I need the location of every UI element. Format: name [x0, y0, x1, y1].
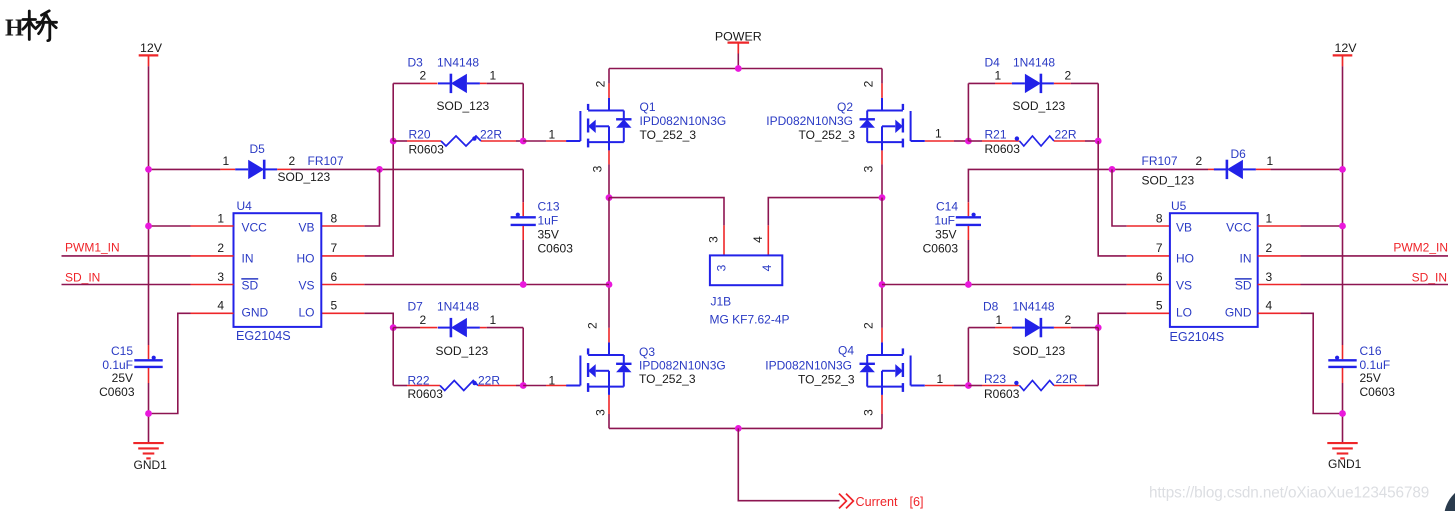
svg-text:12V: 12V [1335, 41, 1358, 55]
wire top rail to Q1 drain [608, 69, 610, 84]
resistor R23 22R [1020, 381, 1055, 391]
wire top rail to Q2 drain [881, 69, 883, 84]
svg-text:22R: 22R [478, 374, 500, 388]
pin 6 of U5 [1127, 284, 1170, 286]
svg-text:25V: 25V [112, 371, 133, 385]
svg-text:FR107: FR107 [1142, 154, 1178, 168]
resistor R20 pin1 dot [472, 136, 476, 140]
svg-text:7: 7 [1156, 241, 1163, 255]
svg-text:2: 2 [1196, 154, 1203, 168]
wire VS rail left [364, 284, 609, 286]
wire C15 to GND junction [148, 383, 150, 443]
svg-text:2: 2 [420, 313, 427, 327]
junction C15/GND1 [145, 410, 152, 417]
svg-text:8: 8 [331, 211, 338, 225]
junction gate-rail-left/D3 riser [390, 138, 397, 145]
pin 2 of U4 [191, 255, 234, 257]
resistor R20 right pin [481, 140, 516, 142]
svg-text:1: 1 [217, 211, 224, 225]
wire C14 to VS rail [967, 240, 969, 285]
diode D4 pin 1 lead [995, 82, 1012, 84]
pin 3 of U4 [191, 284, 234, 286]
wire 12V-right column [1342, 66, 1344, 345]
svg-text:SOD_123: SOD_123 [278, 170, 331, 184]
wire bottom rail [609, 427, 882, 429]
diode D4 1N4148 [1025, 74, 1041, 93]
svg-text:1: 1 [490, 313, 497, 327]
pin 3 of Q1 (source) [608, 150, 610, 164]
svg-text:IN: IN [242, 252, 254, 266]
svg-text:Current: Current [856, 495, 898, 509]
svg-text:1: 1 [549, 127, 556, 141]
resistor R20 22R [441, 136, 481, 146]
svg-text:LO: LO [1176, 306, 1192, 320]
capacitor C13 top pin [522, 202, 524, 216]
ground GND1 left symbol [133, 442, 163, 444]
diode D7 pin 1 lead [480, 327, 487, 329]
junction 12V-left/VB-rail [145, 166, 152, 173]
wire gate rail left stub [393, 140, 407, 142]
svg-text:R21: R21 [985, 127, 1007, 141]
wire C16 to GND junction [1342, 383, 1344, 443]
resistor R21 right pin [1054, 140, 1085, 142]
diode D3 pin 2 lead [420, 82, 437, 84]
pin 5 of U5 [1127, 312, 1170, 314]
svg-text:SD: SD [242, 279, 259, 293]
diode D7 1N4148 [451, 318, 467, 337]
pin 4 of U4 [191, 312, 234, 314]
junction phase-A/VS rail [606, 281, 613, 288]
svg-text:SD: SD [1235, 279, 1252, 293]
wire C13 to VS rail [522, 240, 524, 285]
diode D4 pin 2 lead [1054, 82, 1071, 84]
wire U5 pin8 riser [1112, 169, 1127, 226]
wire D3 rail right segment [487, 82, 524, 84]
svg-text:7: 7 [331, 241, 338, 255]
svg-text:2: 2 [1266, 241, 1273, 255]
svg-text:GND: GND [1225, 306, 1252, 320]
pin 2 of U5 [1258, 255, 1301, 257]
svg-text:C0603: C0603 [923, 241, 959, 255]
pin 4 of J1B [767, 225, 769, 255]
pin 1 of U4 [191, 225, 234, 227]
svg-text:TO_252_3: TO_252_3 [639, 372, 696, 386]
pin 7 of U5 [1127, 255, 1170, 257]
transistor Q2 IPD082N10N3G [910, 111, 912, 141]
junction VB-right/pin8 riser [1109, 166, 1116, 173]
capacitor C15 top pin [148, 345, 150, 359]
svg-text:3: 3 [1266, 270, 1273, 284]
svg-text:1uF: 1uF [934, 213, 955, 227]
junction phase-B/J1B pin4 [879, 194, 886, 201]
svg-text:12V: 12V [140, 41, 163, 55]
avatar circle bottom-right [1444, 484, 1455, 516]
resistor R21 pin1 dot [1015, 136, 1019, 140]
svg-text:1: 1 [1267, 154, 1274, 168]
svg-text:IN: IN [1240, 252, 1252, 266]
svg-text:D5: D5 [250, 142, 266, 156]
svg-text:35V: 35V [538, 227, 559, 241]
svg-text:1N4148: 1N4148 [1013, 300, 1055, 314]
svg-text:D4: D4 [985, 56, 1001, 70]
pin 2 of Q4 (drain) [881, 328, 883, 343]
svg-text:3: 3 [862, 165, 876, 172]
svg-text:1: 1 [549, 373, 556, 387]
svg-text:2: 2 [862, 80, 876, 87]
svg-text:4: 4 [760, 264, 774, 271]
svg-text:R0603: R0603 [408, 387, 444, 401]
wire VCC left [149, 225, 191, 227]
diode D8 pin 1 lead [995, 327, 1012, 329]
resistor R21 22R [1020, 136, 1055, 146]
svg-text:C15: C15 [111, 344, 133, 358]
pin 3 of U5 [1258, 284, 1301, 286]
svg-text:SD_IN: SD_IN [1412, 270, 1447, 284]
wire PWM1_IN [62, 255, 191, 257]
junction VB-rail/pin8 riser left [376, 166, 383, 173]
svg-text:C0603: C0603 [538, 241, 574, 255]
wire top rail POWER node [609, 68, 882, 70]
svg-text:PWM2_IN: PWM2_IN [1393, 241, 1448, 255]
svg-text:3: 3 [217, 270, 224, 284]
svg-text:C0603: C0603 [99, 385, 135, 399]
junction phase-A/J1B pin3 [606, 194, 613, 201]
svg-text:Q3: Q3 [639, 345, 655, 359]
svg-text:2: 2 [420, 69, 427, 83]
capacitor C13 1uF [511, 216, 536, 218]
wire R23 riser right [1097, 328, 1099, 386]
svg-text:R23: R23 [984, 372, 1006, 386]
resistor R20 left pin [407, 140, 441, 142]
wire D5 cathode to VB corner [291, 168, 523, 170]
svg-text:35V: 35V [935, 227, 956, 241]
wire LO-right elbow [1098, 313, 1127, 327]
wire Q4 source to bottom rail [881, 414, 883, 428]
junction Q4-gate/R23 [965, 382, 972, 389]
wire U4 pin8 riser [364, 169, 379, 226]
wire Q3 source to bottom rail [608, 414, 610, 428]
wire U4 GND elbow [149, 313, 191, 413]
svg-text:Q1: Q1 [640, 100, 656, 114]
svg-text:C16: C16 [1360, 344, 1382, 358]
pin 4 of U5 [1258, 312, 1301, 314]
svg-text:H: H [5, 16, 24, 42]
svg-text:SD_IN: SD_IN [65, 270, 100, 284]
pin 6 of U4 [321, 284, 364, 286]
svg-text:3: 3 [715, 264, 729, 271]
resistor R22 pin1 dot [472, 381, 476, 385]
svg-text:2: 2 [217, 241, 224, 255]
svg-text:R0603: R0603 [409, 142, 445, 156]
svg-text:TO_252_3: TO_252_3 [798, 373, 855, 387]
wire U5 GND elbow [1301, 313, 1343, 413]
wire 12V-left column [148, 66, 150, 345]
wire R21 to junction [1085, 140, 1098, 142]
wire to Q3 gate [523, 385, 546, 387]
wire HO-right riser [1098, 141, 1127, 256]
svg-text:3: 3 [707, 236, 721, 243]
wire D7 rail right segment [487, 327, 524, 329]
svg-text:R0603: R0603 [984, 387, 1020, 401]
pin 8 of U4 [321, 225, 364, 227]
wire PWM2_IN [1301, 255, 1449, 257]
svg-text:1N4148: 1N4148 [437, 56, 479, 70]
svg-text:5: 5 [1156, 299, 1163, 313]
junction gate-rail-right/HO riser [1095, 138, 1102, 145]
junction POWER/top-rail [735, 65, 742, 72]
svg-text:VS: VS [298, 279, 314, 293]
svg-text:MG KF7.62-4P: MG KF7.62-4P [710, 313, 790, 327]
svg-text:6: 6 [331, 270, 338, 284]
svg-text:Q4: Q4 [838, 344, 854, 358]
ground GND1 right symbol [1327, 442, 1357, 444]
junction 12V-left/VCC [145, 223, 152, 230]
capacitor C16 top pin [1342, 345, 1344, 359]
wire VB corner down to C13 [522, 169, 524, 202]
wire D6 to 12V column [1271, 168, 1343, 170]
wire LO-left elbow [364, 313, 393, 327]
svg-text:J1B: J1B [711, 295, 732, 309]
wire D4 rail left segment [968, 82, 995, 84]
svg-text:SOD_123: SOD_123 [1013, 344, 1066, 358]
port Current chevrons [839, 494, 853, 509]
wire Q4 gate to junction [954, 385, 968, 387]
diode D5 pin 2 lead [277, 168, 291, 170]
svg-text:https://blog.csdn.net/oXiaoXue: https://blog.csdn.net/oXiaoXue123456789 [1149, 484, 1429, 501]
junction VS-right/C14 [965, 281, 972, 288]
svg-text:0.1uF: 0.1uF [1360, 358, 1391, 372]
svg-text:SOD_123: SOD_123 [1142, 174, 1195, 188]
svg-text:SOD_123: SOD_123 [436, 344, 489, 358]
pin 8 of U5 [1127, 225, 1170, 227]
pin 2 of Q3 (drain) [608, 328, 610, 343]
svg-text:R22: R22 [408, 374, 430, 388]
svg-text:IPD082N10N3G: IPD082N10N3G [765, 359, 852, 373]
pin 1 of Q4 (gate) [925, 385, 954, 387]
svg-text:6: 6 [1156, 270, 1163, 284]
wire D4 rail right segment [1071, 82, 1098, 84]
svg-text:HO: HO [297, 252, 315, 266]
capacitor C15 bottom pin [148, 368, 150, 383]
svg-text:3: 3 [862, 409, 876, 416]
svg-text:R20: R20 [409, 127, 431, 141]
svg-text:3: 3 [591, 165, 605, 172]
svg-text:TO_252_3: TO_252_3 [799, 128, 856, 142]
pin 5 of U4 [321, 312, 364, 314]
svg-text:R0603: R0603 [985, 142, 1021, 156]
svg-text:25V: 25V [1360, 371, 1381, 385]
svg-text:VS: VS [1176, 279, 1192, 293]
svg-text:2: 2 [1065, 313, 1072, 327]
power 12V left bar [139, 54, 159, 56]
svg-text:1: 1 [937, 372, 944, 386]
svg-text:LO: LO [298, 306, 314, 320]
junction 12V-right/VB rail [1339, 166, 1346, 173]
svg-text:VCC: VCC [242, 221, 268, 235]
wire phase-A column [608, 198, 610, 328]
svg-text:Q2: Q2 [837, 100, 853, 114]
svg-text:U4: U4 [237, 199, 253, 213]
svg-text:IPD082N10N3G: IPD082N10N3G [640, 114, 727, 128]
svg-text:GND: GND [242, 306, 269, 320]
svg-text:1: 1 [996, 313, 1003, 327]
svg-text:8: 8 [1156, 211, 1163, 225]
svg-text:IPD082N10N3G: IPD082N10N3G [766, 114, 853, 128]
svg-text:D6: D6 [1231, 147, 1247, 161]
diode D8 1N4148 [1025, 318, 1041, 337]
svg-text:D3: D3 [408, 56, 424, 70]
diode D6 FR107 [1227, 160, 1243, 179]
capacitor C14 bottom pin [967, 226, 969, 240]
resistor R23 pin1 dot [1014, 381, 1018, 385]
capacitor C15 0.1uF [134, 359, 162, 361]
transistor Q1 IPD082N10N3G [579, 111, 581, 141]
svg-text:D7: D7 [408, 300, 424, 314]
svg-text:1N4148: 1N4148 [1013, 56, 1055, 70]
wire SD_IN left [62, 284, 191, 286]
wire Q2 source to phase-B [881, 164, 883, 197]
wire D8 rail right segment [1071, 327, 1098, 329]
svg-text:1: 1 [223, 154, 230, 168]
wire R21 left stub [968, 140, 982, 142]
pin 2 of Q1 (drain) [608, 83, 610, 98]
wire 12V-left to D5 anode [149, 168, 221, 170]
svg-text:GND1: GND1 [134, 458, 168, 472]
svg-text:1: 1 [1266, 211, 1273, 225]
svg-text:U5: U5 [1171, 199, 1187, 213]
capacitor C16 0.1uF [1328, 359, 1356, 361]
pin 1 of Q1 (gate) [546, 140, 571, 142]
svg-text:5: 5 [331, 299, 338, 313]
svg-text:PWM1_IN: PWM1_IN [65, 241, 120, 255]
junction D8-rail right [1095, 324, 1102, 331]
wire Current drop [738, 428, 839, 500]
pin 3 of Q2 (source) [881, 150, 883, 164]
svg-text:22R: 22R [1056, 372, 1078, 386]
svg-text:SOD_123: SOD_123 [437, 99, 490, 113]
svg-text:2: 2 [1065, 69, 1072, 83]
wire HO-left riser [364, 141, 393, 256]
resistor R22 22R [440, 381, 478, 391]
diode D3 pin 1 lead [480, 82, 487, 84]
svg-text:EG2104S: EG2104S [236, 329, 291, 343]
wire D4 riser left [967, 83, 969, 141]
resistor R21 left pin [982, 140, 1020, 142]
wire R23 to riser [1085, 385, 1098, 387]
svg-text:VB: VB [1176, 221, 1192, 235]
svg-text:D8: D8 [983, 300, 999, 314]
svg-text:2: 2 [594, 80, 608, 87]
wire R22 to junction [516, 385, 523, 387]
pin 1 of Q3 (gate) [546, 385, 571, 387]
wire C14 corner to VB rail [968, 169, 1208, 202]
wire D3 rail left segment [393, 82, 420, 84]
svg-text:1: 1 [995, 69, 1002, 83]
svg-text:2: 2 [862, 322, 876, 329]
wire VCC right [1301, 225, 1343, 227]
wire to Q1 gate [523, 140, 546, 142]
svg-text:3: 3 [594, 409, 608, 416]
svg-text:[6]: [6] [910, 495, 924, 509]
svg-text:0.1uF: 0.1uF [102, 358, 133, 372]
capacitor C16 bottom pin [1342, 368, 1344, 383]
pin 1 of U5 [1258, 225, 1301, 227]
svg-text:4: 4 [217, 299, 224, 313]
svg-text:IPD082N10N3G: IPD082N10N3G [639, 359, 726, 373]
wire Q2 gate to junction [954, 140, 968, 142]
svg-text:C13: C13 [538, 199, 560, 213]
svg-text:C0603: C0603 [1360, 385, 1396, 399]
connector J1B box [710, 255, 782, 285]
junction gate-rail-right/D4 riser [965, 138, 972, 145]
pin 3 of Q3 (source) [608, 395, 610, 414]
svg-text:1: 1 [490, 69, 497, 83]
junction R22/Q3 gate [520, 382, 527, 389]
svg-text:EG2104S: EG2104S [1170, 330, 1225, 344]
pin 3 of Q4 (source) [881, 395, 883, 414]
svg-text:VB: VB [298, 221, 314, 235]
diode D6 pin 2 lead [1208, 168, 1223, 170]
svg-text:TO_252_3: TO_252_3 [640, 128, 697, 142]
svg-text:SOD_123: SOD_123 [1013, 99, 1066, 113]
svg-text:2: 2 [289, 154, 296, 168]
pin 7 of U4 [321, 255, 364, 257]
op-amp/driver U4 EG2104S box [234, 213, 322, 327]
wire R22 rail stub [393, 385, 407, 387]
wire VS rail right [882, 284, 1127, 286]
diode D6 pin 1 lead [1256, 168, 1271, 170]
wire phase-B to J1B pin4 [768, 198, 882, 226]
op-amp/driver U5 EG2104S box [1170, 213, 1258, 327]
power POWER bar [728, 41, 750, 43]
wire phase-A to J1B pin3 [609, 198, 724, 226]
svg-text:VCC: VCC [1226, 221, 1252, 235]
svg-text:POWER: POWER [715, 30, 762, 44]
wire D3 riser left [392, 83, 394, 141]
wire R20 to junction [516, 140, 523, 142]
diode D8 pin 2 lead [1054, 327, 1071, 329]
junction gate-rail-left/Q1 gate [520, 138, 527, 145]
capacitor C14 1uF [956, 216, 981, 218]
title glyph qiao (bridge) [23, 11, 57, 41]
svg-text:C14: C14 [936, 199, 958, 213]
pin 3 of J1B [723, 225, 725, 255]
svg-text:HO: HO [1176, 252, 1194, 266]
wire D8 rail left segment [968, 327, 995, 329]
resistor R22 right pin [478, 385, 516, 387]
wire D8 riser left [967, 328, 969, 386]
wire D3 riser right [522, 83, 524, 141]
wire Q1 source to phase-A [608, 164, 610, 197]
junction C16/GND1 [1339, 410, 1346, 417]
diode D5 pin 1 lead [220, 168, 235, 170]
capacitor C14 top pin [967, 202, 969, 216]
svg-text:GND1: GND1 [1328, 457, 1362, 471]
junction phase-B/VS rail [879, 281, 886, 288]
resistor R22 left pin [407, 385, 440, 387]
pin 1 of Q2 (gate) [925, 140, 954, 142]
resistor R23 right pin [1054, 385, 1085, 387]
power 12V right bar [1333, 54, 1353, 56]
wire D7 riser right [522, 328, 524, 386]
transistor Q4 IPD082N10N3G [910, 356, 912, 386]
svg-text:22R: 22R [1055, 127, 1077, 141]
wire D4 riser right [1097, 83, 1099, 141]
svg-text:1: 1 [935, 126, 942, 140]
wire POWER drop [737, 54, 739, 69]
transistor Q3 IPD082N10N3G [579, 356, 581, 386]
capacitor C13 bottom pin [522, 226, 524, 240]
